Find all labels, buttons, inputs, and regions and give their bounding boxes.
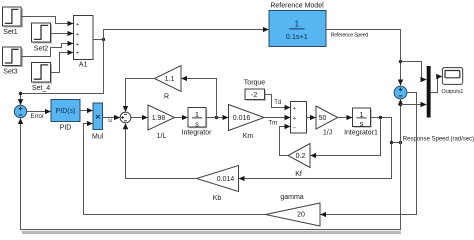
wire Integrator1 output to Kb [239,118,392,179]
sum block sum3 [291,102,307,134]
integrator Integrator [182,108,213,137]
gain Kf (0.2) [288,144,310,179]
sum block A1 [74,16,94,69]
gain gamma (20) [266,194,321,226]
wire Kf to sum3 minus [280,127,291,156]
node response to mux junction [399,103,402,106]
wire sum4 output to gamma [321,93,417,215]
wire junction down to Kf [311,118,381,156]
svg-text:Set_4: Set_4 [32,85,50,92]
svg-text:1.98: 1.98 [152,115,166,122]
svg-text:PID: PID [60,124,72,131]
wire gain 1/J to Integrator1 [338,117,352,119]
wire sum3 to gain 1/J [307,117,316,119]
step source Set_4 [32,63,53,93]
gain Km (0.016) [229,105,265,141]
node response junction at 142.5 [390,141,393,144]
node reference speed junction [399,60,402,63]
sum sum4 (blue circle) [394,86,407,99]
wire cross link [392,142,401,144]
svg-text:Torque: Torque [244,80,266,87]
wire Set1 to A1 [21,17,73,24]
wire response up to sum4 bottom [400,100,402,143]
gain 1/J (50) [316,106,338,136]
svg-text:−: − [293,125,296,131]
svg-text:+: + [76,42,79,48]
wire Torque to sum3 [265,95,291,108]
wire setpoint down to Error sum [21,40,104,105]
wire setpoint to Reference Model [104,30,269,40]
svg-text:0.2: 0.2 [296,153,306,160]
integrator Integrator1 [344,108,378,136]
gain 1/L (1.98) [148,105,175,140]
product block Mul [92,103,104,141]
wire Mul output to sum2 [103,117,120,119]
svg-text:-2: -2 [251,92,257,99]
svg-text:Set1: Set1 [3,29,18,36]
transfer fcn Reference Model [269,2,326,46]
wire sum2 to gain 1/L [131,117,148,119]
svg-text:Km: Km [243,133,254,140]
wire response feedback bottom to Error sum [21,119,401,230]
wire Reference Model output to sum4 top [326,30,401,86]
bottom gray band [22,231,401,234]
svg-text:Integrator: Integrator [182,129,213,136]
svg-text:+: + [293,106,296,112]
gain Kb (0.014) [197,166,239,203]
svg-text:1: 1 [295,19,300,28]
scope Outputs1 [442,68,464,95]
svg-text:0.1s+1: 0.1s+1 [286,32,308,41]
step source Set1 [3,7,24,36]
svg-text:Tm: Tm [268,121,277,127]
svg-text:0.014: 0.014 [217,176,235,183]
svg-text:Kf: Kf [295,171,302,178]
svg-text:Error: Error [31,114,44,120]
wire Error sum to PID [27,111,51,113]
svg-text:R: R [164,94,169,101]
svg-text:+: + [293,116,296,122]
svg-text:Reference Speed: Reference Speed [331,33,369,39]
svg-text:+: + [76,32,79,38]
wire Km to sum3 [264,117,290,119]
node integrator1 output junction [379,116,382,119]
svg-text:Mul: Mul [92,134,104,141]
svg-text:Integrator1: Integrator1 [344,129,378,136]
svg-text:50: 50 [319,115,327,122]
constant Torque (-2) [244,80,266,101]
wire PID to Mul [80,110,93,112]
sum Error (blue circle) [14,105,26,117]
svg-text:1/J: 1/J [323,129,332,136]
wire reference speed to mux input 1 [401,62,427,80]
svg-text:Kb: Kb [213,195,222,202]
svg-text:Outputs1: Outputs1 [442,89,464,95]
svg-text:Td: Td [274,100,281,106]
node corner above Error sum [19,92,22,95]
svg-text:A1: A1 [79,62,88,69]
gain R (1.1) [155,66,182,101]
node A1 output junction [102,38,105,41]
svg-text:s: s [360,119,364,128]
wire A1 output to junction [93,39,104,41]
svg-text:PID(s): PID(s) [56,108,76,115]
svg-text:20: 20 [297,212,305,219]
svg-text:s: s [195,119,199,128]
wire junction up to gain R [182,79,217,118]
wire mux to Outputs1 [431,77,442,93]
PID controller PID [51,100,80,132]
node response junction right [399,141,402,144]
svg-text:Reference Model: Reference Model [270,2,324,9]
wire gamma to Mul second input [84,124,266,215]
svg-text:Set2: Set2 [34,45,49,52]
svg-text:1/L: 1/L [157,133,167,140]
wire Integrator to Km [206,117,228,119]
step source Set2 [32,23,53,52]
wire Set3 to A1 [21,44,73,57]
wire response to mux input 2 [401,104,427,106]
wire gain R to sum2 top [126,79,155,112]
svg-text:×: × [95,112,100,122]
svg-text:0.016: 0.016 [233,115,251,122]
svg-text:1.1: 1.1 [165,76,175,83]
mux bar [427,66,431,118]
svg-text:gamma: gamma [280,194,303,201]
sum sum2 (white circle) [120,112,131,123]
svg-text:Set3: Set3 [3,69,18,76]
step source Set3 [3,47,24,76]
node integrator output junction [215,116,218,119]
wire Set_4 to A1 [51,53,74,73]
wire gain 1/L to Integrator [175,117,188,119]
wire Set2 to A1 [51,33,74,35]
wire Kb to sum2 bottom [126,124,197,179]
svg-text:Response Speed (rad/sec): Response Speed (rad/sec) [403,137,474,143]
svg-text:+: + [76,22,79,28]
svg-text:u: u [108,117,112,124]
svg-text:+: + [76,51,79,57]
